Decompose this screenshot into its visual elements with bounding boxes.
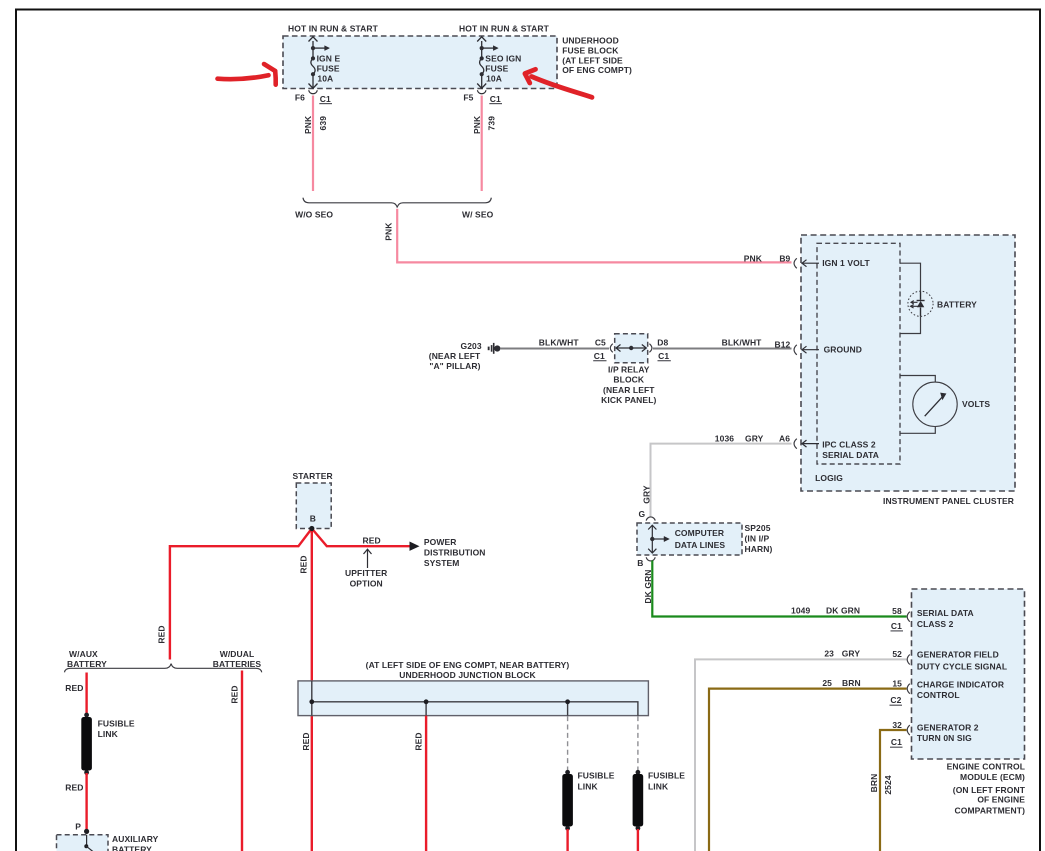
connector C1 label (pin 32): [890, 737, 903, 747]
svg-text:GROUND: GROUND: [824, 345, 862, 355]
svg-text:FUSE: FUSE: [485, 63, 508, 73]
svg-text:BLK/WHT: BLK/WHT: [539, 338, 580, 348]
svg-text:23: 23: [824, 649, 834, 659]
auxiliary battery label: [112, 834, 159, 851]
svg-text:LINK: LINK: [648, 781, 669, 791]
wire RED W/DUAL branch: [241, 671, 243, 851]
svg-text:RED: RED: [301, 732, 311, 750]
svg-text:BATTERIES: BATTERIES: [213, 659, 262, 669]
svg-text:RED: RED: [65, 683, 83, 693]
connector arc at B9: [794, 258, 797, 268]
fuse F5 SEO IGN FUSE 10A: [477, 37, 498, 89]
svg-text:UPFITTER: UPFITTER: [345, 568, 387, 578]
fusible link 1: [81, 713, 92, 775]
connector C1 arc under F5: [477, 90, 486, 93]
pin CHARGE INDICATOR CONTROL label: [917, 680, 1004, 701]
svg-text:DATA LINES: DATA LINES: [675, 540, 726, 550]
svg-text:FUSIBLE: FUSIBLE: [648, 771, 685, 781]
node bus tap 3: [565, 699, 570, 704]
connector C2 label (pin 15): [890, 695, 903, 705]
wire DK GRN 1049 (splice to ECM 58): [652, 561, 906, 617]
connector C1 arc under F6: [309, 90, 318, 93]
svg-text:OPTION: OPTION: [350, 579, 383, 589]
svg-text:D8: D8: [657, 338, 668, 348]
wire PNK 739 (from F5): [481, 96, 483, 192]
computer data lines splice box SP205: [637, 523, 742, 555]
svg-text:1049: 1049: [791, 605, 810, 615]
svg-text:UNDERHOOD: UNDERHOOD: [562, 35, 619, 45]
wire RED starter vertical lower: [311, 716, 313, 851]
svg-text:BATTERY: BATTERY: [937, 300, 977, 310]
fusible link 3 label: [578, 771, 615, 792]
svg-text:OF ENGINE: OF ENGINE: [977, 794, 1025, 804]
svg-text:BATTERY: BATTERY: [112, 845, 152, 851]
connector arc at D8: [649, 344, 652, 353]
connector arc at 15: [907, 684, 910, 694]
svg-text:BATTERY: BATTERY: [67, 659, 107, 669]
splice internal arrows: [648, 525, 669, 553]
wire GRY 1036 (A6 to splice): [651, 444, 792, 518]
svg-text:(NEAR LEFT: (NEAR LEFT: [429, 351, 481, 361]
svg-text:SP205: SP205: [745, 523, 771, 533]
svg-text:FUSE: FUSE: [317, 63, 340, 73]
underhood junction block box: [298, 681, 648, 716]
svg-text:10A: 10A: [317, 74, 333, 84]
connector arc at C5: [610, 344, 613, 353]
connector arc at 32: [907, 725, 910, 735]
svg-text:STARTER: STARTER: [293, 471, 333, 481]
connector C1 label (F6): [319, 94, 332, 104]
underhood fuse block box: [283, 36, 557, 89]
svg-text:W/AUX: W/AUX: [69, 649, 98, 659]
node W/DUAL BATTERIES label: [213, 649, 262, 669]
svg-text:W/ SEO: W/ SEO: [462, 209, 494, 219]
battery indicator lamp U: [908, 291, 933, 316]
node bus tap 1: [309, 699, 314, 704]
wire BRN 2524 (to ECM 32): [880, 730, 907, 851]
svg-text:GRY: GRY: [642, 485, 652, 504]
svg-text:KICK PANEL): KICK PANEL): [601, 395, 656, 405]
brace W/AUX | W/DUAL: [65, 664, 262, 673]
connector arc at 52: [907, 655, 910, 665]
relay block internal splice: [616, 345, 646, 352]
svg-text:IGN 1 VOLT: IGN 1 VOLT: [822, 258, 870, 268]
pin B12 arrow: [802, 346, 820, 353]
wire volts branch (bottom): [900, 427, 935, 434]
svg-text:C1: C1: [490, 94, 501, 104]
svg-text:VOLTS: VOLTS: [962, 399, 990, 409]
auxiliary battery internal contact: [84, 835, 93, 851]
svg-text:B12: B12: [774, 340, 790, 350]
svg-text:1036: 1036: [715, 433, 734, 443]
connector C1 label (pin 58): [891, 621, 904, 631]
wire RED W/AUX branch lower: [85, 773, 87, 831]
connector C1 label (F5): [489, 94, 502, 104]
svg-text:C1: C1: [320, 94, 331, 104]
svg-text:POWER: POWER: [424, 537, 457, 547]
svg-text:LINK: LINK: [98, 729, 119, 739]
wire RED W/AUX branch upper: [85, 673, 87, 715]
svg-text:C5: C5: [595, 338, 606, 348]
svg-text:58: 58: [892, 606, 902, 616]
svg-text:739: 739: [487, 116, 497, 131]
svg-text:B: B: [637, 558, 643, 568]
pin GENERATOR 2 TURN 0N SIG label: [917, 722, 979, 743]
svg-text:BRN: BRN: [869, 774, 879, 793]
svg-text:BLK/WHT: BLK/WHT: [722, 338, 763, 348]
svg-text:RED: RED: [298, 555, 308, 573]
bus tap 2 lead: [425, 702, 427, 716]
wire RED below fusible link 4: [637, 829, 639, 851]
auxiliary battery box: [57, 835, 109, 851]
svg-text:GRY: GRY: [745, 433, 764, 443]
svg-text:LOGIG: LOGIG: [815, 473, 843, 483]
connector C1 label (C5 side): [593, 351, 606, 361]
ground G203 label: [429, 341, 482, 371]
connector arc at G: [646, 517, 655, 521]
dashed lead to fusible link 4: [637, 716, 639, 770]
bus drop (solid) at third tap: [567, 702, 569, 716]
IPC logic inner box: [817, 243, 900, 464]
fusible link 4: [633, 770, 644, 831]
fusible link 1 label: [98, 718, 135, 739]
svg-text:FUSE BLOCK: FUSE BLOCK: [562, 45, 619, 55]
wire RED starter branch right (to power dist): [312, 529, 410, 547]
annotation red arrow right: [525, 69, 592, 97]
svg-text:F6: F6: [295, 92, 305, 102]
svg-text:639: 639: [318, 116, 328, 131]
svg-text:DISTRIBUTION: DISTRIBUTION: [424, 548, 486, 558]
svg-text:52: 52: [892, 649, 902, 659]
svg-text:PNK: PNK: [303, 115, 313, 134]
engine control module box: [912, 589, 1025, 759]
svg-text:CLASS 2: CLASS 2: [917, 619, 954, 629]
fuse F6 IGN E FUSE 10A: [309, 37, 330, 89]
svg-text:RED: RED: [363, 536, 381, 546]
svg-text:SEO IGN: SEO IGN: [485, 54, 521, 64]
svg-text:(IN I/P: (IN I/P: [745, 534, 770, 544]
junction block bus bar: [312, 702, 638, 716]
svg-text:"A" PILLAR): "A" PILLAR): [429, 361, 480, 371]
wire RED starter branch left: [170, 529, 312, 660]
wire volts branch (top): [900, 376, 935, 383]
wire battery branch (bottom): [900, 316, 921, 333]
node bus tap 2: [424, 699, 429, 704]
svg-text:F5: F5: [463, 92, 473, 102]
connector arc at B: [646, 557, 655, 561]
svg-text:10A: 10A: [486, 74, 502, 84]
pin IPC CLASS 2 SERIAL DATA label: [822, 440, 879, 460]
svg-text:HOT IN RUN & START: HOT IN RUN & START: [459, 24, 550, 34]
svg-text:FUSIBLE: FUSIBLE: [578, 771, 615, 781]
svg-text:LINK: LINK: [578, 781, 599, 791]
svg-text:BRN: BRN: [842, 678, 861, 688]
engine control module label: [947, 762, 1026, 816]
svg-text:CHARGE INDICATOR: CHARGE INDICATOR: [917, 680, 1004, 690]
fuse F6 value label: [317, 54, 341, 84]
svg-text:BLOCK: BLOCK: [613, 375, 644, 385]
svg-text:C1: C1: [891, 737, 902, 747]
svg-text:COMPUTER: COMPUTER: [675, 528, 724, 538]
wire RED starter vertical upper: [311, 529, 313, 682]
svg-text:15: 15: [892, 678, 902, 688]
svg-text:FUSIBLE: FUSIBLE: [98, 718, 135, 728]
pin GENERATOR FIELD DUTY CYCLE SIGNAL label: [917, 650, 1007, 672]
svg-text:INSTRUMENT PANEL CLUSTER: INSTRUMENT PANEL CLUSTER: [883, 496, 1014, 506]
wire GRY 23 (to ECM 52): [695, 659, 907, 851]
voltmeter M: [913, 382, 957, 426]
svg-text:PNK: PNK: [384, 222, 394, 241]
connector C1 label (D8 side): [658, 351, 671, 361]
svg-text:AUXILIARY: AUXILIARY: [112, 834, 159, 844]
svg-text:GRY: GRY: [842, 649, 861, 659]
svg-text:ENGINE CONTROL: ENGINE CONTROL: [947, 762, 1025, 772]
svg-text:G: G: [638, 509, 645, 519]
svg-text:25: 25: [822, 678, 832, 688]
svg-text:(AT LEFT SIDE OF ENG COMPT, NE: (AT LEFT SIDE OF ENG COMPT, NEAR BATTERY…: [366, 660, 570, 670]
svg-text:SERIAL DATA: SERIAL DATA: [822, 450, 879, 460]
annotation red arrow left: [218, 64, 276, 85]
svg-text:TURN 0N SIG: TURN 0N SIG: [917, 733, 972, 743]
dashed lead to fusible link 3: [567, 716, 569, 770]
svg-text:PNK: PNK: [744, 253, 763, 263]
svg-text:DUTY CYCLE SIGNAL: DUTY CYCLE SIGNAL: [917, 661, 1007, 671]
pin A6 arrow: [802, 440, 820, 447]
svg-text:B: B: [310, 514, 316, 524]
svg-text:(ON LEFT FRONT: (ON LEFT FRONT: [953, 785, 1026, 795]
wire PNK main to IPC B9: [397, 209, 791, 263]
COMPUTER DATA LINES label: [675, 528, 726, 550]
wire RED below fusible link 3: [566, 829, 568, 851]
svg-text:RED: RED: [157, 625, 167, 643]
svg-text:HOT IN RUN & START: HOT IN RUN & START: [288, 24, 379, 34]
junction block location label: [366, 660, 570, 680]
svg-text:UNDERHOOD JUNCTION BLOCK: UNDERHOOD JUNCTION BLOCK: [399, 670, 536, 680]
svg-text:C1: C1: [658, 351, 669, 361]
svg-text:C2: C2: [890, 695, 901, 705]
upfitter option arrow: [364, 549, 372, 568]
svg-text:RED: RED: [414, 732, 424, 750]
svg-text:GENERATOR FIELD: GENERATOR FIELD: [917, 650, 999, 660]
svg-text:W/O SEO: W/O SEO: [295, 209, 333, 219]
fusible link 4 label: [648, 771, 685, 792]
instrument panel cluster box: [801, 235, 1015, 491]
svg-text:32: 32: [892, 720, 902, 730]
upfitter option label: [345, 568, 387, 589]
svg-text:C1: C1: [594, 351, 605, 361]
bus tap 1 through-lead: [311, 681, 313, 716]
svg-text:C1: C1: [891, 621, 902, 631]
svg-text:RED: RED: [230, 685, 240, 703]
svg-text:W/DUAL: W/DUAL: [220, 649, 255, 659]
node P junction dot: [84, 829, 89, 834]
svg-text:GENERATOR 2: GENERATOR 2: [917, 722, 979, 732]
svg-text:MODULE (ECM): MODULE (ECM): [960, 772, 1025, 782]
svg-text:A6: A6: [779, 434, 790, 444]
svg-text:HARN): HARN): [745, 544, 773, 554]
svg-text:IGN E: IGN E: [317, 54, 341, 64]
wire RED bus tap 2 down: [425, 716, 427, 851]
svg-text:SYSTEM: SYSTEM: [424, 558, 460, 568]
ground G203: [488, 343, 501, 354]
svg-text:(NEAR LEFT: (NEAR LEFT: [603, 385, 655, 395]
svg-text:OF ENG COMPT): OF ENG COMPT): [562, 65, 632, 75]
svg-text:2524: 2524: [883, 775, 893, 794]
wire BLK/WHT (relay block to IPC B12): [653, 348, 792, 350]
fuse F5 value label: [485, 54, 521, 84]
starter box: [296, 483, 331, 529]
I/P relay block label: [601, 364, 656, 405]
wire PNK 639 (from F6): [312, 96, 314, 192]
brace W/O SEO | W/ SEO: [303, 198, 491, 208]
pin B9 arrow: [802, 260, 820, 267]
wire BLK/WHT (G203 to relay block): [500, 348, 609, 350]
svg-text:DK GRN: DK GRN: [826, 605, 860, 615]
power distribution arrow: [410, 542, 420, 551]
svg-text:SERIAL DATA: SERIAL DATA: [917, 608, 974, 618]
pin SERIAL DATA CLASS 2 label: [917, 608, 974, 629]
svg-text:I/P RELAY: I/P RELAY: [608, 364, 650, 374]
node W/AUX BATTERY label: [67, 649, 107, 669]
svg-text:PNK: PNK: [472, 115, 482, 134]
power distribution system label: [424, 537, 486, 568]
svg-text:IPC CLASS 2: IPC CLASS 2: [822, 440, 876, 450]
svg-text:RED: RED: [65, 783, 83, 793]
svg-text:CONTROL: CONTROL: [917, 690, 960, 700]
svg-text:COMPARTMENT): COMPARTMENT): [955, 805, 1026, 815]
splice SP205 label: [745, 523, 773, 554]
I/P relay block box: [615, 334, 648, 363]
connector arc at B12: [794, 345, 797, 355]
fusible link 3: [562, 770, 573, 831]
connector arc at A6: [794, 439, 797, 449]
svg-text:(AT LEFT SIDE: (AT LEFT SIDE: [562, 55, 623, 65]
svg-text:P: P: [75, 822, 81, 832]
connector arc at 58: [907, 612, 910, 622]
svg-text:B9: B9: [779, 253, 790, 263]
wire battery branch (top): [900, 263, 921, 291]
wire BRN 25 (to ECM 15): [709, 689, 907, 851]
node B junction dot: [309, 526, 314, 531]
svg-text:G203: G203: [460, 341, 481, 351]
fuse block label: [562, 35, 632, 75]
